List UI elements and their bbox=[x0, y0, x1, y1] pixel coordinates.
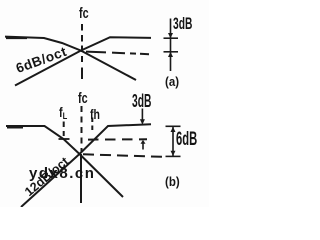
node fc solid vertical below crossing (b) bbox=[80, 154, 82, 203]
wire dashed 6dB level (b) bbox=[83, 154, 162, 157]
wire lowpass left thick artifact (a) bbox=[6, 37, 27, 39]
wire lowpass response line (b) bbox=[6, 126, 123, 197]
label (a) bbox=[165, 75, 179, 89]
label 3dB (b) bbox=[132, 91, 151, 112]
label fc (b) bbox=[78, 90, 88, 107]
label (b) bbox=[165, 175, 180, 189]
arrow 3dB up (b) bbox=[141, 140, 146, 150]
node fh dashed vertical (b) bbox=[91, 118, 93, 131]
wire dashed 3dB level (b) bbox=[88, 138, 147, 140]
wire dashed 3dB-down level (a) bbox=[86, 52, 149, 55]
node fL tick (b) bbox=[59, 138, 70, 140]
label 12dB/oct (b) bbox=[22, 154, 71, 199]
node fc dashed vertical (a) bbox=[81, 24, 83, 79]
dimension bracket 6dB (b) bbox=[166, 126, 181, 156]
label 6dB (b) bbox=[176, 129, 197, 151]
wire highpass response line (b) bbox=[21, 124, 151, 207]
label 6dB/oct (a) bbox=[14, 44, 69, 76]
label fh (b) bbox=[90, 106, 100, 122]
label fL (b) bbox=[59, 105, 67, 120]
wire lowpass response line (a) bbox=[5, 37, 136, 80]
wire lowpass left thick artifact (b) bbox=[7, 127, 23, 129]
watermark ydx8.cn bbox=[29, 165, 95, 182]
node fL dashed vertical (b) bbox=[63, 122, 65, 137]
node fc dashed vertical (b) bbox=[81, 106, 83, 152]
dimension line 3dB (a) bbox=[164, 19, 179, 72]
arrow 3dB down (b) bbox=[140, 109, 145, 125]
label fc (a) bbox=[79, 5, 89, 22]
wire highpass response line (a) bbox=[15, 37, 151, 85]
label 3dB (a) bbox=[173, 15, 192, 34]
